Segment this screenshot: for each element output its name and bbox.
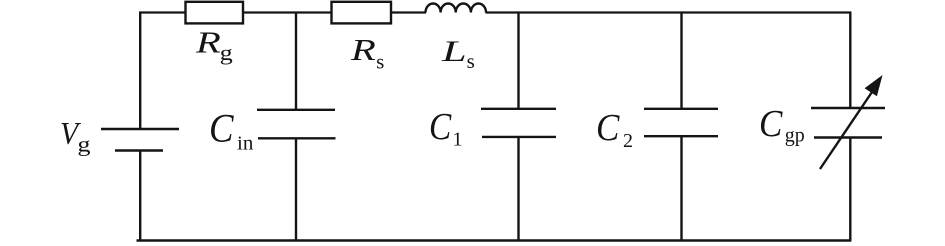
wire C_1 lower: [517, 137, 519, 241]
wire C_2 lower: [680, 136, 682, 241]
arrow head of variable capacitor C_gp: [865, 75, 883, 96]
resistor R_s: [332, 2, 392, 24]
capacitor C_1 top plate: [481, 108, 556, 110]
svg-text:g: g: [220, 41, 233, 65]
svg-text:C: C: [596, 107, 620, 148]
inductor L_s: [426, 3, 487, 12]
svg-text:C: C: [209, 107, 234, 151]
capacitor C_gp bottom plate: [814, 136, 882, 138]
wire right rail upper: [849, 12, 851, 109]
wire C_in lower: [295, 138, 297, 241]
wire C_2 upper: [680, 13, 682, 110]
wire bottom rail: [137, 239, 852, 242]
svg-text:g: g: [77, 133, 90, 157]
svg-text:1: 1: [453, 129, 463, 151]
svg-text:C: C: [429, 105, 452, 147]
arrow shaft of variable capacitor C_gp: [820, 92, 872, 169]
capacitor C_1 bottom plate: [482, 136, 556, 138]
svg-text:2: 2: [623, 130, 633, 152]
wire left rail lower: [139, 151, 141, 242]
capacitor C_in bottom plate: [258, 137, 336, 139]
capacitor C_gp top plate: [811, 107, 885, 109]
svg-text:R: R: [195, 25, 221, 59]
svg-text:in: in: [237, 133, 253, 154]
svg-text:L: L: [441, 35, 467, 68]
svg-text:s: s: [376, 49, 384, 73]
capacitor C_2 top plate: [644, 108, 718, 110]
svg-text:s: s: [467, 49, 475, 73]
wire left rail upper: [139, 12, 141, 130]
battery V_g long plate: [101, 128, 179, 130]
capacitor C_2 bottom plate: [644, 135, 718, 137]
capacitor C_in top plate: [257, 109, 335, 111]
wire top rail right segment: [486, 11, 852, 13]
wire C_in upper: [295, 13, 297, 111]
svg-text:gp: gp: [785, 125, 805, 147]
svg-text:R: R: [350, 32, 376, 66]
wire C_1 upper: [517, 13, 519, 110]
wire right rail lower: [849, 138, 851, 242]
battery V_g short plate: [115, 149, 163, 152]
resistor R_g: [186, 2, 244, 24]
wire top rail left segment: [139, 11, 426, 13]
svg-text:C: C: [759, 103, 783, 144]
